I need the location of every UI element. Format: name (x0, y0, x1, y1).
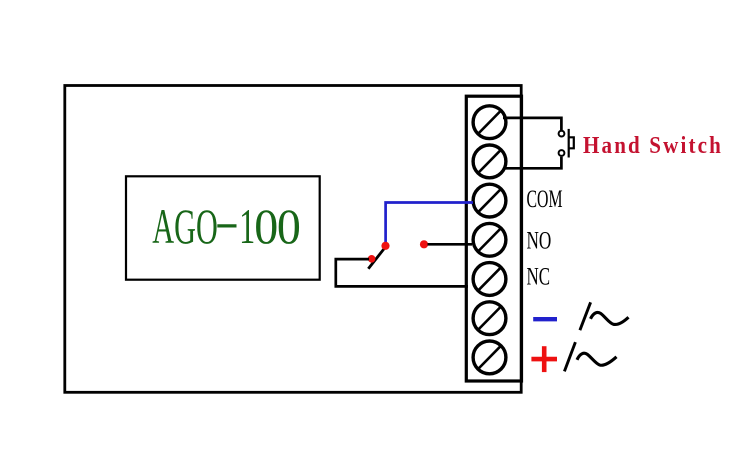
svg-text:1: 1 (239, 199, 255, 254)
AC tilde for plus row (577, 353, 617, 365)
DC positive terminal symbol (red plus) (531, 346, 557, 372)
terminal 7 (473, 341, 506, 374)
svg-text:NC: NC (527, 264, 551, 291)
DC negative terminal symbol (blue minus) (533, 317, 557, 321)
slash for plus row (564, 342, 575, 371)
terminal 5 NC (473, 263, 506, 296)
svg-text:AGO: AGO (152, 199, 218, 254)
terminal 1 (473, 106, 506, 139)
terminal 2 (473, 145, 506, 178)
label AGO-100 (152, 199, 301, 254)
push button SB1 (hand switch) (559, 129, 574, 158)
terminal 4 NO (473, 223, 506, 256)
relay NC contact dot (red) (368, 255, 376, 263)
wire NC contact to terminal 5 (336, 259, 468, 286)
svg-text:NO: NO (527, 228, 552, 255)
svg-text:0: 0 (254, 199, 278, 254)
terminal 3 COM (473, 184, 506, 217)
AC tilde for minus row (591, 312, 629, 324)
terminal block outline (466, 96, 521, 381)
relay NO contact dot (red) (420, 240, 428, 248)
relay pole junction (red) (381, 242, 389, 250)
blue wire COM to relay pole (386, 203, 473, 246)
slash for minus row (580, 302, 591, 330)
terminal 6 (473, 302, 506, 335)
wire NO contact to terminal 4 (428, 243, 473, 246)
controller box outline (65, 86, 521, 393)
svg-text:Hand Switch: Hand Switch (583, 132, 723, 159)
svg-text:0: 0 (277, 199, 301, 254)
wire terminal1 to hand switch (503, 118, 561, 130)
AGO-100 module box (126, 176, 320, 279)
wire terminal2 to hand switch (503, 157, 561, 169)
svg-text:COM: COM (527, 186, 563, 213)
relay contact arm (368, 247, 386, 269)
